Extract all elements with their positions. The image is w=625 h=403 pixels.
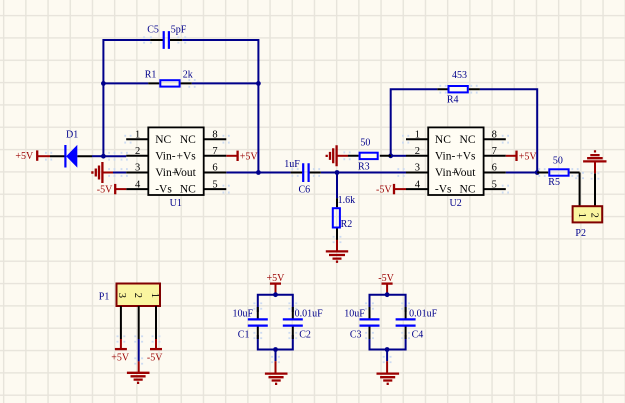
svg-text:C6: C6 <box>299 184 311 195</box>
svg-text:R4: R4 <box>447 94 459 105</box>
svg-text:+5V: +5V <box>519 152 538 163</box>
U2 pin 6 <box>484 172 506 174</box>
junction: U1 Vout node <box>256 170 261 175</box>
U1 pin 6 <box>204 172 227 174</box>
svg-text:2k: 2k <box>183 70 193 81</box>
svg-text:NC: NC <box>460 184 476 196</box>
svg-text:R3: R3 <box>358 162 370 173</box>
wire: P2 pin 2 up to ground <box>594 173 596 205</box>
capacitor C1 <box>233 307 268 341</box>
svg-text:3: 3 <box>116 293 127 298</box>
capacitor C6 <box>284 159 321 195</box>
power port -5V at U1 pin 4 <box>97 184 126 196</box>
svg-text:NC: NC <box>180 184 196 196</box>
svg-text:-Vs: -Vs <box>155 184 172 196</box>
svg-text:10uF: 10uF <box>344 309 365 320</box>
U1 pin 8 <box>204 138 227 140</box>
capacitor C4 <box>396 307 438 341</box>
junction: R1 row right on feedback column <box>256 81 261 86</box>
ground below C1 C2 <box>265 350 288 384</box>
wire: C1 C2 bottom loop <box>258 335 293 350</box>
U1 pin 3 <box>126 172 148 174</box>
power port +5V above C1 C2 <box>267 273 286 295</box>
svg-text:2: 2 <box>132 293 143 298</box>
svg-text:2: 2 <box>415 146 420 157</box>
wire: P1 pin 2 to ground <box>138 339 140 361</box>
wire: node B down to R2 <box>336 173 338 199</box>
wire: C3 C4 bottom loop <box>370 335 406 350</box>
wire: U2 pin 6 to R5 node <box>506 172 537 174</box>
svg-text:1uF: 1uF <box>284 159 300 170</box>
wire: R5 to P2 pin 1 <box>579 173 581 206</box>
wire: C6 to U2 pin 3 <box>321 172 406 174</box>
ground at U1 pin 3 <box>92 162 113 183</box>
svg-text:4: 4 <box>135 179 141 190</box>
wire: R3 right to U2 pin 2 <box>391 155 406 157</box>
svg-text:NC: NC <box>155 134 171 146</box>
connector P2 <box>573 206 603 239</box>
wire: left feedback vertical from C5 row to node A <box>103 40 150 156</box>
svg-text:+5V: +5V <box>240 152 259 163</box>
ground above P2 <box>583 151 606 173</box>
resistor R1 <box>145 70 193 87</box>
resistor R4 <box>437 70 480 105</box>
wire: U1 pin3 ground segment <box>113 172 126 174</box>
op-amp U2 <box>406 127 506 208</box>
svg-text:6: 6 <box>492 163 497 174</box>
junction: R1 row left on feedback column <box>101 81 106 86</box>
svg-text:7: 7 <box>492 146 497 157</box>
svg-text:5: 5 <box>492 179 497 190</box>
U2 pin 2 <box>406 155 428 157</box>
P1 pin 1 lead <box>155 306 157 339</box>
wire: C3 C4 top loop <box>370 295 406 312</box>
wire: node A to U1 pin 2 <box>103 155 126 157</box>
U1 pin 4 <box>126 188 148 190</box>
svg-text:Vin-: Vin- <box>155 150 176 162</box>
wire: R1 row left segment <box>103 82 148 84</box>
power port -5V above C3 C4 <box>378 273 394 295</box>
wire: right feedback vertical from C5 through R1 row to Vout node <box>182 40 258 173</box>
U2 pin 4 <box>406 188 428 190</box>
wire: R4 feedback left vertical and top <box>391 89 438 156</box>
power port +5V at U2 pin 7 <box>506 151 538 163</box>
resistor R5 <box>537 156 579 189</box>
svg-text:-5V: -5V <box>97 185 113 196</box>
svg-text:-Vs: -Vs <box>435 184 452 196</box>
svg-text:3: 3 <box>415 163 420 174</box>
svg-text:U2: U2 <box>450 198 462 209</box>
svg-text:50: 50 <box>553 156 563 167</box>
U1 pin 5 <box>204 188 227 190</box>
svg-text:C5: C5 <box>147 25 159 36</box>
node: C3 C4 bottom <box>385 347 390 352</box>
svg-text:R2: R2 <box>341 219 353 230</box>
svg-text:1: 1 <box>415 129 420 140</box>
node: C1 C2 bottom <box>273 347 278 352</box>
node: C1 C2 top <box>273 292 278 297</box>
diode D1 <box>50 130 92 168</box>
ground below P1 <box>127 361 150 382</box>
node: C3 C4 top <box>385 292 390 297</box>
U1 pin 1 <box>126 138 148 140</box>
junction: U2 Vout node to R5 <box>535 170 540 175</box>
U1 pin 2 <box>126 155 148 157</box>
capacitor C3 <box>344 307 379 341</box>
svg-text:7: 7 <box>212 146 217 157</box>
svg-text:C1: C1 <box>238 330 250 341</box>
power port -5V at U2 pin 4 <box>376 184 406 196</box>
ground below R2 <box>326 240 348 262</box>
svg-text:50: 50 <box>360 137 370 148</box>
wire: C1 C2 top loop <box>258 295 293 312</box>
svg-text:0.01uF: 0.01uF <box>295 309 324 320</box>
svg-text:D1: D1 <box>66 130 78 141</box>
svg-text:8: 8 <box>212 129 217 140</box>
connector P1 <box>99 284 160 340</box>
capacitor C2 <box>283 307 323 341</box>
wire: R1 row right segment <box>192 82 259 84</box>
svg-text:453: 453 <box>452 70 467 81</box>
svg-text:+5V: +5V <box>15 151 34 162</box>
U2 pin 3 <box>406 172 428 174</box>
svg-text:C4: C4 <box>412 330 424 341</box>
svg-text:10uF: 10uF <box>233 309 254 320</box>
svg-text:P2: P2 <box>575 228 586 239</box>
svg-text:NC: NC <box>435 134 451 146</box>
resistor R2 <box>333 195 355 241</box>
hotspot indicator dots (decorative) <box>45 36 599 364</box>
op-amp U1 <box>126 127 226 208</box>
svg-text:+5V: +5V <box>111 353 130 364</box>
svg-text:+Vs: +Vs <box>456 150 476 162</box>
svg-text:NC: NC <box>460 134 476 146</box>
node A: D1 cathode to U1 pin 2 <box>101 154 106 159</box>
svg-text:1: 1 <box>135 129 140 140</box>
svg-text:5: 5 <box>212 179 217 190</box>
power port +5V at D1 <box>15 150 50 162</box>
svg-text:4: 4 <box>415 179 421 190</box>
svg-text:Vout: Vout <box>174 167 196 179</box>
wire: U1 Vout to C6 <box>226 172 290 174</box>
U2 pin 5 <box>484 188 506 190</box>
capacitor C5 <box>147 25 187 49</box>
svg-text:0.01uF: 0.01uF <box>409 309 438 320</box>
svg-text:+Vs: +Vs <box>177 150 197 162</box>
svg-text:Vin-: Vin- <box>435 150 456 162</box>
U1 pin 7 <box>204 155 227 157</box>
node B: C6 to R2 and U2 pin 3 <box>335 170 340 175</box>
U2 pin 1 <box>406 138 428 140</box>
svg-text:2: 2 <box>135 146 140 157</box>
svg-text:R5: R5 <box>548 177 560 188</box>
svg-text:3: 3 <box>135 163 140 174</box>
svg-text:5pF: 5pF <box>171 25 187 36</box>
P1 pin 2 lead <box>138 306 140 339</box>
svg-text:1: 1 <box>576 213 587 218</box>
ground below C3 C4 <box>377 350 400 384</box>
svg-text:2: 2 <box>588 213 599 218</box>
svg-text:C2: C2 <box>299 330 311 341</box>
power port +5V at U1 pin 7 <box>226 151 258 163</box>
svg-text:-5V: -5V <box>147 353 163 364</box>
wire: R4 right vertical down to U2 Vout node <box>480 89 537 172</box>
svg-text:6: 6 <box>212 163 217 174</box>
svg-text:R1: R1 <box>145 70 157 81</box>
svg-text:-5V: -5V <box>376 185 392 196</box>
power port +5V below P1 pin 3 <box>111 339 130 364</box>
svg-text:C3: C3 <box>350 330 362 341</box>
ground at R3 left <box>327 145 348 166</box>
svg-text:U1: U1 <box>170 198 182 209</box>
svg-text:P1: P1 <box>99 292 110 303</box>
resistor R3 <box>348 137 391 172</box>
P1 pin 3 lead <box>120 306 122 339</box>
junction: R3 to U2 pin 2 and R4 <box>388 153 393 158</box>
svg-text:NC: NC <box>180 134 196 146</box>
U2 pin 8 <box>484 138 506 140</box>
svg-text:1.6k: 1.6k <box>338 195 356 206</box>
U2 pin 7 <box>484 155 506 157</box>
wire: D1 cathode node segment <box>92 155 103 157</box>
svg-text:1: 1 <box>149 293 160 298</box>
svg-text:8: 8 <box>492 129 497 140</box>
svg-text:Vout: Vout <box>454 167 476 179</box>
power port -5V below P1 pin 1 <box>147 339 163 364</box>
